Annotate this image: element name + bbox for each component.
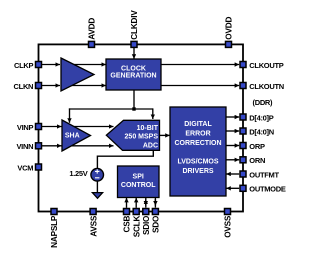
wire OUTMODE into drivers (226, 187, 239, 189)
block CLOCK GENERATION (106, 59, 161, 90)
svg-text:SPI: SPI (133, 173, 144, 180)
svg-text:D[4:0]P: D[4:0]P (249, 113, 273, 122)
pin SDO (152, 209, 161, 233)
pin CLKP (14, 61, 42, 70)
pin AVSS (89, 209, 98, 237)
block DIGITAL ERROR CORRECTION / LVDS-CMOS DRIVERS (170, 107, 226, 196)
pin VINP (17, 123, 42, 132)
wire drivers to ORN (226, 159, 239, 161)
svg-text:GENERATION: GENERATION (110, 73, 156, 80)
svg-text:AVDD: AVDD (88, 18, 97, 40)
svg-text:DRIVERS: DRIVERS (182, 168, 213, 175)
svg-text:SDIO: SDIO (142, 215, 151, 235)
svg-text:OVSS: OVSS (224, 215, 233, 238)
wire CSB into SPI control (126, 198, 128, 208)
block SHA (62, 120, 91, 151)
pin OVDD (225, 17, 234, 48)
svg-text:D[4:0]N: D[4:0]N (249, 127, 274, 136)
wire CLKP to clock buffer input (42, 64, 60, 66)
svg-text:OVDD: OVDD (225, 17, 234, 40)
ground (92, 181, 102, 199)
svg-text:CLOCK: CLOCK (121, 65, 146, 72)
svg-text:DIGITAL: DIGITAL (184, 121, 212, 128)
pin CLKDIV (130, 10, 139, 48)
svg-text:VINP: VINP (17, 123, 34, 132)
wire drivers to D[4:0]P (226, 116, 239, 118)
pin CLKOUTN (240, 82, 284, 91)
svg-text:(DDR): (DDR) (253, 98, 274, 107)
pin VCM (17, 163, 41, 172)
svg-text:NAPSLP: NAPSLP (50, 215, 59, 248)
pin NAPSLP (50, 209, 59, 248)
wire drivers to D[4:0]N (226, 130, 239, 132)
pin OVSS (224, 209, 233, 238)
svg-text:250 MSPS: 250 MSPS (125, 134, 159, 141)
svg-text:10-BIT: 10-BIT (137, 125, 159, 132)
svg-text:SCLK: SCLK (132, 216, 141, 238)
wire ADC to digital error correction (160, 134, 170, 136)
pin D[4:0]N (240, 127, 274, 136)
svg-text:ERROR: ERROR (185, 131, 210, 138)
wire 1.25V reference to ADC (97, 150, 153, 169)
wire SDIO bidirectional SPI control (145, 198, 147, 208)
pin OUTMODE (240, 185, 286, 194)
pin CLKN (14, 82, 42, 91)
svg-text:CLKP: CLKP (14, 61, 34, 70)
wire clock generation to CLKOUTN (161, 85, 239, 87)
svg-text:ORP: ORP (249, 142, 265, 151)
wire clock buffer to clock generation top (65, 64, 106, 66)
pin SCLK (132, 209, 141, 238)
svg-text:VINN: VINN (16, 142, 33, 151)
pin ORP (240, 142, 265, 151)
svg-text:ADC: ADC (143, 143, 158, 150)
wire CLKN to clock buffer input (42, 85, 60, 87)
wire SDO from SPI control (154, 198, 156, 208)
svg-text:SDO: SDO (152, 215, 161, 233)
block SPI CONTROL (118, 166, 160, 198)
pin ORN (240, 156, 265, 165)
wire SCLK into SPI control (135, 198, 137, 208)
svg-text:CSB: CSB (123, 216, 132, 233)
wire OUTFMT into drivers (226, 173, 239, 175)
pin CSB (123, 209, 132, 233)
clock buffer amplifier (61, 58, 94, 91)
block ADC 10-BIT 250 MSPS (106, 120, 159, 150)
svg-text:LVDS/CMOS: LVDS/CMOS (177, 159, 218, 166)
svg-text:AVSS: AVSS (89, 215, 98, 237)
svg-text:CLKOUTP: CLKOUTP (249, 61, 283, 70)
wire clock distribution to SHA and ADC (69, 90, 153, 123)
pin VINN (16, 142, 41, 151)
wire clock buffer to clock generation bottom (65, 85, 106, 87)
wire drivers to ORP (226, 145, 239, 147)
wire VINN into SHA (42, 145, 62, 147)
svg-text:SHA: SHA (65, 132, 80, 139)
svg-text:1.25V: 1.25V (69, 169, 87, 178)
svg-text:CLKN: CLKN (14, 82, 34, 91)
wire CLKDIV into clock generation (133, 48, 135, 59)
pin CLKOUTP (240, 61, 284, 70)
pin OUTFMT (240, 170, 279, 179)
pin SDIO (142, 209, 151, 236)
wire SHA to ADC top (66, 126, 114, 128)
svg-text:CORRECTION: CORRECTION (174, 140, 221, 147)
pin AVDD (88, 18, 97, 48)
wire SHA to ADC bottom (66, 145, 114, 147)
pin D[4:0]P (240, 113, 274, 122)
chip outline box (39, 44, 244, 211)
svg-text:OUTMODE: OUTMODE (249, 185, 286, 194)
wire clock generation to CLKOUTP (161, 64, 239, 66)
svg-text:VCM: VCM (17, 163, 33, 172)
voltage reference 1.25V (69, 169, 103, 182)
svg-text:CLKDIV: CLKDIV (130, 10, 139, 40)
svg-text:ORN: ORN (249, 156, 265, 165)
svg-text:CONTROL: CONTROL (121, 182, 156, 189)
wire VINP into SHA (42, 126, 62, 128)
svg-text:CLKOUTN: CLKOUTN (249, 82, 284, 91)
svg-text:OUTFMT: OUTFMT (249, 170, 279, 179)
